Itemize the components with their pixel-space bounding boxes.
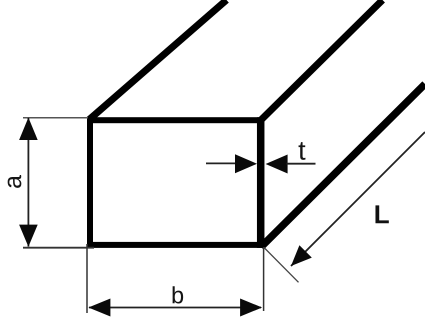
extension line bottom (dimension a) bbox=[23, 247, 94, 249]
dimension line b bbox=[89, 307, 261, 309]
label t bbox=[299, 142, 306, 160]
arrowhead b right bbox=[240, 299, 262, 317]
arrowhead L bbox=[291, 245, 312, 266]
extension line top (dimension a) bbox=[23, 117, 88, 119]
extension line at corner (dimension L) bbox=[264, 248, 299, 283]
label b bbox=[173, 286, 184, 303]
dimension line a bbox=[27, 118, 29, 247]
arrowhead b left bbox=[88, 299, 110, 317]
label a bbox=[8, 175, 22, 188]
extension line left (dimension b) bbox=[86, 244, 88, 313]
leader line right (dimension t) bbox=[286, 163, 315, 165]
arrowhead a bottom bbox=[19, 225, 38, 247]
extension line right (dimension b) bbox=[263, 247, 265, 311]
arrowhead t right bbox=[266, 155, 288, 174]
leader line left (dimension t) bbox=[206, 162, 236, 164]
label L bbox=[375, 205, 388, 223]
receding edge from top-left corner bbox=[89, 0, 227, 120]
arrowhead a top bbox=[19, 118, 38, 141]
front face rectangle of tube bbox=[90, 120, 261, 245]
arrowhead t left bbox=[235, 154, 257, 173]
tube wall right edge (thickness t) bbox=[257, 117, 265, 248]
dimension line L bbox=[291, 132, 425, 266]
receding edge from bottom-right corner bbox=[261, 84, 425, 247]
receding edge from top-right corner bbox=[261, 0, 383, 120]
